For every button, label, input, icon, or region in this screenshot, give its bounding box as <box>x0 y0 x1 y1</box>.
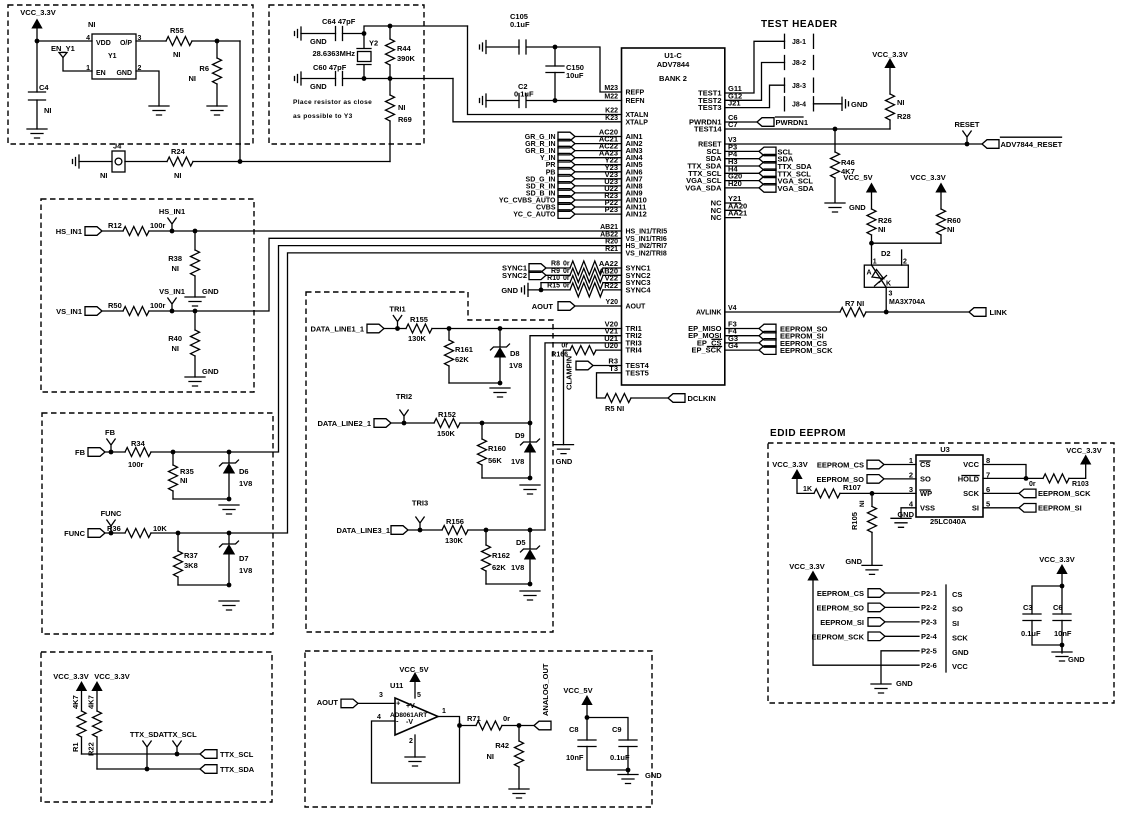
svg-text:SD_G_IN: SD_G_IN <box>526 176 556 183</box>
svg-text:J8-1: J8-1 <box>792 39 806 46</box>
junction <box>388 76 393 81</box>
svg-text:C9: C9 <box>612 725 622 734</box>
capacitor C150 <box>554 47 556 101</box>
resistor R12 <box>123 227 149 236</box>
wire REFP net <box>555 47 622 92</box>
svg-text:R5 NI: R5 NI <box>605 404 624 413</box>
resistor R71 <box>476 721 502 730</box>
svg-text:SO: SO <box>920 474 931 483</box>
svg-text:VCC_3.3V: VCC_3.3V <box>789 562 824 571</box>
svg-text:TTX_SCL: TTX_SCL <box>220 750 254 759</box>
svg-text:TTX_SDA: TTX_SDA <box>130 730 165 739</box>
connector J8 test header pins <box>785 34 814 111</box>
svg-text:Y1: Y1 <box>108 53 117 60</box>
right pins SCL..VGA_SDA <box>685 142 742 192</box>
wire R160 to D9 bottom <box>482 477 530 479</box>
zener D8 <box>499 329 501 384</box>
svg-text:VCC_5V: VCC_5V <box>399 665 428 674</box>
wire Y1 GND pin to ground <box>136 71 159 106</box>
svg-text:TTX_SDA: TTX_SDA <box>220 765 255 774</box>
svg-text:NI: NI <box>173 50 181 59</box>
wire output net down to J4 row <box>239 41 241 162</box>
svg-text:3: 3 <box>909 485 913 494</box>
junction <box>457 723 462 728</box>
svg-text:SYNC4: SYNC4 <box>626 285 652 294</box>
zener D6 <box>228 452 230 500</box>
junction <box>193 229 198 234</box>
svg-text:AVLINK: AVLINK <box>696 310 722 317</box>
wire TEST5 to R5 <box>597 373 622 398</box>
resistor R166 0r <box>564 349 571 351</box>
svg-text:TEST5: TEST5 <box>626 368 649 377</box>
svg-text:R50: R50 <box>108 301 122 310</box>
svg-text:VSS: VSS <box>920 503 935 512</box>
right pins TEST1-3 <box>698 84 742 112</box>
junction <box>395 326 400 331</box>
svg-text:1V8: 1V8 <box>239 479 252 488</box>
svg-text:VCC_3.3V: VCC_3.3V <box>94 672 129 681</box>
svg-text:XTALP: XTALP <box>626 119 649 126</box>
wire R103 to VCC <box>1069 463 1086 478</box>
svg-text:3: 3 <box>889 291 893 298</box>
junction <box>965 142 970 147</box>
junction <box>35 39 40 44</box>
svg-text:PR: PR <box>546 162 556 169</box>
wire R55 to corner <box>192 40 240 42</box>
svg-text:VCC_5V: VCC_5V <box>563 686 592 695</box>
svg-text:R46: R46 <box>841 158 855 167</box>
ground (D8) <box>490 388 510 397</box>
wire R161 to D8 bottom <box>449 382 500 384</box>
dashed enclosure box HS/VS input section <box>41 199 254 392</box>
svg-text:R38: R38 <box>168 254 182 263</box>
dashed enclosure box op-amp section <box>305 651 652 807</box>
svg-text:SD_B_IN: SD_B_IN <box>526 190 556 197</box>
svg-text:VS_IN1/TRI6: VS_IN1/TRI6 <box>626 236 667 243</box>
overlines CS WP HOLD <box>920 461 979 490</box>
wire PR to pin <box>575 164 622 166</box>
svg-text:VDD: VDD <box>96 40 111 47</box>
resistor R34 <box>125 448 151 457</box>
svg-text:0.1uF: 0.1uF <box>1021 629 1041 638</box>
svg-text:R71: R71 <box>467 714 481 723</box>
junction <box>176 531 181 536</box>
wire SD_G_IN to pin <box>575 178 622 180</box>
svg-text:ANALOG_OUT: ANALOG_OUT <box>541 663 550 716</box>
svg-text:GND: GND <box>952 648 969 657</box>
wire YC_CVBS_AUTO to pin <box>575 199 622 201</box>
net flag GR_R_IN (AIN input) <box>525 139 575 148</box>
svg-text:VCC_3.3V: VCC_3.3V <box>20 8 55 17</box>
wire PB to pin <box>575 171 622 173</box>
pins AIN1-AIN12 names <box>626 132 647 219</box>
svg-text:1V8: 1V8 <box>239 566 252 575</box>
svg-text:3K8: 3K8 <box>184 561 198 570</box>
wires EP_MISO..EP_SCK to tags <box>725 329 759 351</box>
resistor R161 <box>448 329 450 384</box>
resistor R152 <box>434 419 460 428</box>
ground (Y1 pin2) <box>149 106 169 115</box>
net tag TTX_SDA <box>725 162 812 171</box>
wire TEST3 to J8-3 <box>725 85 785 107</box>
svg-text:HS_IN2/TRI7: HS_IN2/TRI7 <box>626 243 668 250</box>
resistor R6 <box>216 41 218 106</box>
ground (SYNC) <box>522 283 529 296</box>
net tag SDA <box>725 154 794 163</box>
svg-text:P2-1: P2-1 <box>921 589 937 598</box>
resistor R162 <box>485 530 487 584</box>
junction <box>553 98 558 103</box>
svg-text:K22: K22 <box>605 108 618 115</box>
svg-text:100r: 100r <box>150 301 166 310</box>
svg-text:AB21: AB21 <box>600 224 618 231</box>
zener D9 <box>529 423 531 478</box>
resistor R69 <box>389 79 391 162</box>
wire gnd to C105 <box>486 46 519 48</box>
svg-text:56K: 56K <box>488 456 502 465</box>
wire C2 to junction <box>527 100 556 102</box>
ground (D7) <box>219 601 239 610</box>
wire gnd to C2 <box>486 100 519 102</box>
svg-text:AOUT: AOUT <box>626 304 647 311</box>
wire O/P to R55 <box>136 40 166 42</box>
connector P2 <box>945 585 947 672</box>
net flag HS_IN1 <box>168 218 176 231</box>
net flag PR (AIN input) <box>546 160 575 169</box>
svg-text:AOUT: AOUT <box>532 302 554 311</box>
resistor R50 <box>123 307 149 316</box>
wire HS_IN1 to R12 <box>102 230 123 232</box>
ground (R40) <box>185 377 205 386</box>
junction <box>227 531 232 536</box>
wire gnd to J4 <box>79 161 112 163</box>
svg-text:R162: R162 <box>492 551 510 560</box>
resistor R107 <box>814 489 840 498</box>
svg-text:0r: 0r <box>503 714 510 723</box>
wire VS_IN1 net up to IC <box>149 238 622 311</box>
net tag VGA_SDA <box>725 184 815 193</box>
svg-text:R40: R40 <box>168 334 182 343</box>
svg-text:EEPROM_SCK: EEPROM_SCK <box>780 346 833 355</box>
net tag DCLKIN <box>668 394 685 403</box>
junction <box>388 24 393 29</box>
svg-text:R7 NI: R7 NI <box>845 299 864 308</box>
svg-text:NI: NI <box>172 344 180 353</box>
resistor R24 <box>167 157 193 166</box>
svg-text:390K: 390K <box>397 54 416 63</box>
svg-text:NI: NI <box>174 171 182 180</box>
capacitor C8 <box>578 740 596 747</box>
svg-text:3: 3 <box>379 692 383 699</box>
wire Y_IN to pin <box>575 157 622 159</box>
wire CVBS to pin <box>575 206 622 208</box>
resistor R22 <box>96 691 98 770</box>
resistor R42 <box>518 726 520 790</box>
svg-text:R12: R12 <box>108 221 122 230</box>
svg-text:RESET: RESET <box>954 120 979 129</box>
wire FUNC net up to IC <box>151 253 622 533</box>
svg-text:28.6363MHz: 28.6363MHz <box>312 49 355 58</box>
svg-text:ADV7844: ADV7844 <box>657 60 690 69</box>
resistor R105 <box>871 493 873 565</box>
svg-text:1: 1 <box>909 456 913 465</box>
svg-text:R28: R28 <box>897 112 911 121</box>
wire R35 to D6 bottom <box>173 498 229 500</box>
resistor R103 <box>1043 474 1069 483</box>
svg-text:62K: 62K <box>455 355 469 364</box>
U3 pin numbers <box>909 456 990 508</box>
wire to R156 <box>408 529 442 531</box>
ground (C105 left) <box>480 41 487 54</box>
svg-text:P2-4: P2-4 <box>921 632 938 641</box>
svg-text:+V: +V <box>406 703 415 710</box>
svg-text:NC: NC <box>711 213 722 222</box>
svg-text:R8: R8 <box>551 261 560 268</box>
wire SD_R_IN to pin <box>575 185 622 187</box>
svg-text:P2-3: P2-3 <box>921 618 937 627</box>
junction <box>109 531 114 536</box>
wire VS_IN1 to R50 <box>102 310 123 312</box>
svg-text:GND: GND <box>310 82 327 91</box>
svg-text:YC_C_AUTO: YC_C_AUTO <box>513 212 556 219</box>
svg-text:4K7: 4K7 <box>87 695 96 709</box>
svg-text:VCC_3.3V: VCC_3.3V <box>910 173 945 182</box>
svg-text:6: 6 <box>986 485 990 494</box>
wire to R152 <box>391 422 434 424</box>
net flag TTX_SCL <box>173 741 181 754</box>
svg-text:K23: K23 <box>605 115 618 122</box>
junction <box>1060 643 1065 648</box>
resistor R15 0r <box>528 289 570 291</box>
wire R162 to D5 bottom <box>486 583 530 585</box>
svg-text:SCK: SCK <box>963 489 979 498</box>
connector jack J4 <box>112 151 125 172</box>
svg-text:R26: R26 <box>878 216 892 225</box>
svg-text:2: 2 <box>903 259 907 266</box>
svg-text:P2-5: P2-5 <box>921 647 937 656</box>
ground (C4) <box>27 129 47 138</box>
svg-text:CVBS: CVBS <box>536 205 556 212</box>
svg-text:0r: 0r <box>1029 481 1036 488</box>
svg-text:GND: GND <box>1068 655 1085 664</box>
ground (R42) <box>509 789 529 798</box>
capacitor C9 <box>587 718 628 741</box>
svg-text:VCC_3.3V: VCC_3.3V <box>872 50 907 59</box>
svg-text:0r: 0r <box>563 275 570 282</box>
ground (R38) <box>185 297 205 306</box>
svg-text:2: 2 <box>409 738 413 745</box>
right pins PWRDN1/TEST14 <box>689 113 738 134</box>
svg-text:TRI1: TRI1 <box>389 305 405 314</box>
svg-text:TRI2: TRI2 <box>396 392 412 401</box>
svg-text:U11: U11 <box>390 681 403 690</box>
wire TEST2 to J8-2 <box>725 63 785 101</box>
wire output <box>438 717 460 726</box>
svg-text:R21: R21 <box>605 246 618 253</box>
net tag LINK <box>969 308 986 317</box>
pins SYNC1-4 <box>599 259 652 294</box>
svg-text:M23: M23 <box>604 85 618 92</box>
svg-text:R1: R1 <box>71 742 80 752</box>
wire C60 to junction <box>343 78 365 80</box>
resistor R7 <box>840 308 866 317</box>
wire TEST1 to J8-1 <box>725 41 785 93</box>
svg-text:R161: R161 <box>455 345 473 354</box>
wire P2-5 to ground <box>881 651 919 684</box>
net flag YC_C_AUTO (AIN input) <box>513 210 575 219</box>
svg-text:EN_Y1: EN_Y1 <box>51 44 75 53</box>
wire VCC to R107 <box>797 479 814 494</box>
pins AIN1-AIN12 numbers <box>599 128 618 215</box>
junction <box>1060 584 1065 589</box>
capacitor C60 <box>336 72 343 86</box>
wire TTX_SCL net <box>82 753 201 755</box>
svg-text:1V8: 1V8 <box>511 457 524 466</box>
svg-text:NI: NI <box>189 74 197 83</box>
svg-text:C4: C4 <box>39 83 49 92</box>
svg-text:EEPROM_SCK: EEPROM_SCK <box>1038 489 1091 498</box>
svg-text:REFP: REFP <box>626 90 645 97</box>
svg-text:D9: D9 <box>515 431 525 440</box>
net flag VS_IN1 <box>168 298 176 311</box>
net tag ADV7844_RESET <box>982 140 999 149</box>
svg-text:SCK: SCK <box>952 633 968 642</box>
ground (D6) <box>219 505 239 514</box>
junction <box>498 326 503 331</box>
svg-text:EDID EEPROM: EDID EEPROM <box>770 428 846 439</box>
svg-text:R24: R24 <box>171 147 186 156</box>
wire TRI1 net to IC <box>432 328 622 330</box>
ground (P2-5) <box>871 684 891 693</box>
net flag TRI2 <box>400 410 408 423</box>
svg-text:J8-4: J8-4 <box>792 102 806 109</box>
junction <box>480 421 485 426</box>
junction <box>484 528 489 533</box>
resistor R40 <box>194 311 196 377</box>
wire GR_B_IN to pin <box>575 150 622 152</box>
ground (C2 left) <box>480 94 487 107</box>
dashed enclosure box EDID EEPROM section <box>768 443 1114 703</box>
resistor R156 <box>442 526 468 535</box>
wire pin2 to ground <box>414 735 416 757</box>
pins TRI1-4 <box>604 320 642 355</box>
junction <box>1024 476 1029 481</box>
oscillator Y1 <box>92 34 136 79</box>
resistor R155 <box>406 324 432 333</box>
svg-text:0.1uF: 0.1uF <box>510 20 530 29</box>
svg-text:R34: R34 <box>131 439 146 448</box>
junction <box>528 476 533 481</box>
resistor R60 <box>940 192 942 243</box>
wire GR_G_IN to pin <box>575 136 622 138</box>
svg-text:R20: R20 <box>605 239 618 246</box>
resistor R36 <box>125 529 151 538</box>
svg-text:62K: 62K <box>492 563 506 572</box>
wire R107 to WP <box>840 492 916 494</box>
wire XTALN net <box>468 26 622 115</box>
ground (C8/C9) <box>627 770 629 775</box>
svg-text:J8-3: J8-3 <box>792 83 806 90</box>
junction <box>528 528 533 533</box>
svg-text:100r: 100r <box>128 460 144 469</box>
svg-text:NI: NI <box>487 752 495 761</box>
svg-text:R9: R9 <box>551 268 560 275</box>
svg-text:TEST HEADER: TEST HEADER <box>761 19 838 30</box>
junction <box>362 76 367 81</box>
svg-text:P2-6: P2-6 <box>921 661 937 670</box>
svg-text:C3: C3 <box>1023 603 1033 612</box>
svg-text:R107: R107 <box>843 483 861 492</box>
net flag TRI3 <box>416 517 424 530</box>
junction <box>498 381 503 386</box>
svg-text:GR_G_IN: GR_G_IN <box>525 134 556 141</box>
wire +V pin5 <box>414 682 416 699</box>
wire SI pin5 <box>983 507 1019 509</box>
junction <box>170 309 175 314</box>
ground (R46) <box>825 203 845 212</box>
svg-text:PWRDN1: PWRDN1 <box>776 118 809 127</box>
svg-text:R36: R36 <box>107 524 121 533</box>
svg-text:0r: 0r <box>561 343 568 350</box>
svg-text:VS_IN1: VS_IN1 <box>159 287 185 296</box>
wire HS_IN1 net to IC <box>149 230 622 232</box>
junction <box>227 583 232 588</box>
svg-text:HS_IN1: HS_IN1 <box>159 207 185 216</box>
wire XTALP net <box>453 79 622 122</box>
svg-text:SI: SI <box>972 503 979 512</box>
resistor R160 <box>481 423 483 478</box>
wire VSS to ground <box>901 508 916 519</box>
svg-text:VCC_3.3V: VCC_3.3V <box>1039 555 1074 564</box>
svg-text:NI: NI <box>947 225 955 234</box>
svg-text:NI: NI <box>398 103 406 112</box>
junction <box>145 767 150 772</box>
svg-text:SO: SO <box>952 604 963 613</box>
svg-text:GR_B_IN: GR_B_IN <box>525 148 555 155</box>
svg-text:DATA_LINE2_1: DATA_LINE2_1 <box>318 419 372 428</box>
svg-text:GND: GND <box>116 70 132 77</box>
svg-text:LINK: LINK <box>990 308 1008 317</box>
svg-text:8: 8 <box>986 456 990 465</box>
svg-text:1V8: 1V8 <box>511 563 524 572</box>
resistor R10 0r <box>541 282 570 284</box>
junction <box>175 752 180 757</box>
svg-text:GND: GND <box>202 367 219 376</box>
junction <box>884 310 889 315</box>
dashed enclosure box oscillator Y1 section <box>8 5 253 144</box>
dashed enclosure box FB/FUNC section <box>42 413 273 634</box>
svg-text:R69: R69 <box>398 115 412 124</box>
ground (R6) <box>207 106 227 115</box>
wire output to R71 <box>460 725 477 727</box>
svg-text:C60 47pF: C60 47pF <box>313 63 347 72</box>
svg-text:4K7: 4K7 <box>71 695 80 709</box>
svg-text:2: 2 <box>909 470 913 479</box>
svg-text:EEPROM_CS: EEPROM_CS <box>817 589 864 598</box>
wire top xtal net <box>364 26 468 34</box>
net flag SD_R_IN (AIN input) <box>526 182 575 191</box>
ground (D9) <box>520 485 540 494</box>
svg-text:NI: NI <box>859 500 866 507</box>
capacitor C105 <box>519 40 526 54</box>
svg-text:VS_IN1: VS_IN1 <box>56 307 82 316</box>
svg-text:M22: M22 <box>604 94 618 101</box>
wire FB to R34 <box>105 451 125 453</box>
wire R37 to D7 bottom <box>178 584 229 586</box>
net flag TTX_SDA <box>143 741 151 769</box>
junction <box>109 450 114 455</box>
svg-text:R152: R152 <box>438 410 456 419</box>
